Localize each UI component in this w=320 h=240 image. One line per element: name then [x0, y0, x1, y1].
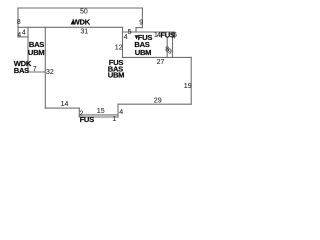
- wire upper fus box right wall: [174, 32, 176, 38]
- wire twenty-nine foot wall: [118, 103, 191, 105]
- wire twelve foot wall: [122, 27, 124, 57]
- svg-text:50: 50: [80, 8, 88, 15]
- svg-text:8: 8: [17, 19, 21, 26]
- wire deck top wall: [18, 7, 142, 9]
- wire fourteen foot wall: [45, 107, 79, 109]
- svg-text:7: 7: [33, 66, 37, 73]
- svg-text:27: 27: [157, 59, 165, 66]
- node WDK deck label triangle: [71, 20, 75, 24]
- svg-text:4: 4: [17, 32, 21, 39]
- wire upper fus box top wall: [123, 31, 175, 33]
- svg-text:WDK: WDK: [73, 18, 91, 27]
- svg-text:9: 9: [168, 48, 172, 55]
- wire notch bottom wall: [18, 36, 28, 38]
- wire bump right wall: [117, 104, 119, 117]
- wire chimney right wall: [172, 34, 174, 58]
- wire deck bottom jog horizontal: [136, 27, 142, 29]
- svg-text:UBM: UBM: [135, 48, 151, 57]
- wire deck right wall: [141, 8, 143, 28]
- svg-text:14: 14: [61, 101, 69, 108]
- wire chimney left wall: [166, 38, 168, 58]
- svg-text:4: 4: [119, 109, 123, 116]
- svg-text:4: 4: [124, 34, 128, 41]
- svg-text:BAS: BAS: [14, 66, 29, 75]
- svg-text:4: 4: [22, 29, 26, 36]
- svg-text:5: 5: [128, 29, 132, 36]
- wire deck bottom jog vertical: [135, 28, 137, 32]
- wire thirty-two foot wall: [44, 27, 46, 108]
- wire notch left wall: [17, 27, 19, 37]
- wire bump bottom lower wall: [79, 116, 118, 118]
- svg-text:9: 9: [139, 19, 143, 26]
- wire house top wall: [18, 26, 123, 28]
- svg-text:5: 5: [173, 32, 177, 39]
- wire seven foot wall: [28, 71, 45, 73]
- wire twenty-seven foot wall: [123, 56, 192, 58]
- svg-text:1: 1: [112, 116, 116, 123]
- wire nineteen foot wall: [190, 57, 192, 104]
- wire bump left wall: [78, 108, 80, 117]
- svg-text:12: 12: [115, 44, 123, 51]
- node FUS right area label triangle: [135, 35, 139, 39]
- wire bump bottom upper wall: [79, 114, 118, 116]
- svg-text:UBM: UBM: [108, 71, 124, 80]
- wire deck left wall: [17, 8, 19, 27]
- svg-text:FUS: FUS: [80, 115, 95, 124]
- svg-text:UBM: UBM: [28, 48, 44, 57]
- svg-text:29: 29: [154, 97, 162, 104]
- svg-text:19: 19: [184, 83, 192, 90]
- svg-text:32: 32: [46, 69, 54, 76]
- svg-text:15: 15: [97, 108, 105, 115]
- wire house left wall: [27, 27, 29, 72]
- svg-text:31: 31: [81, 29, 89, 36]
